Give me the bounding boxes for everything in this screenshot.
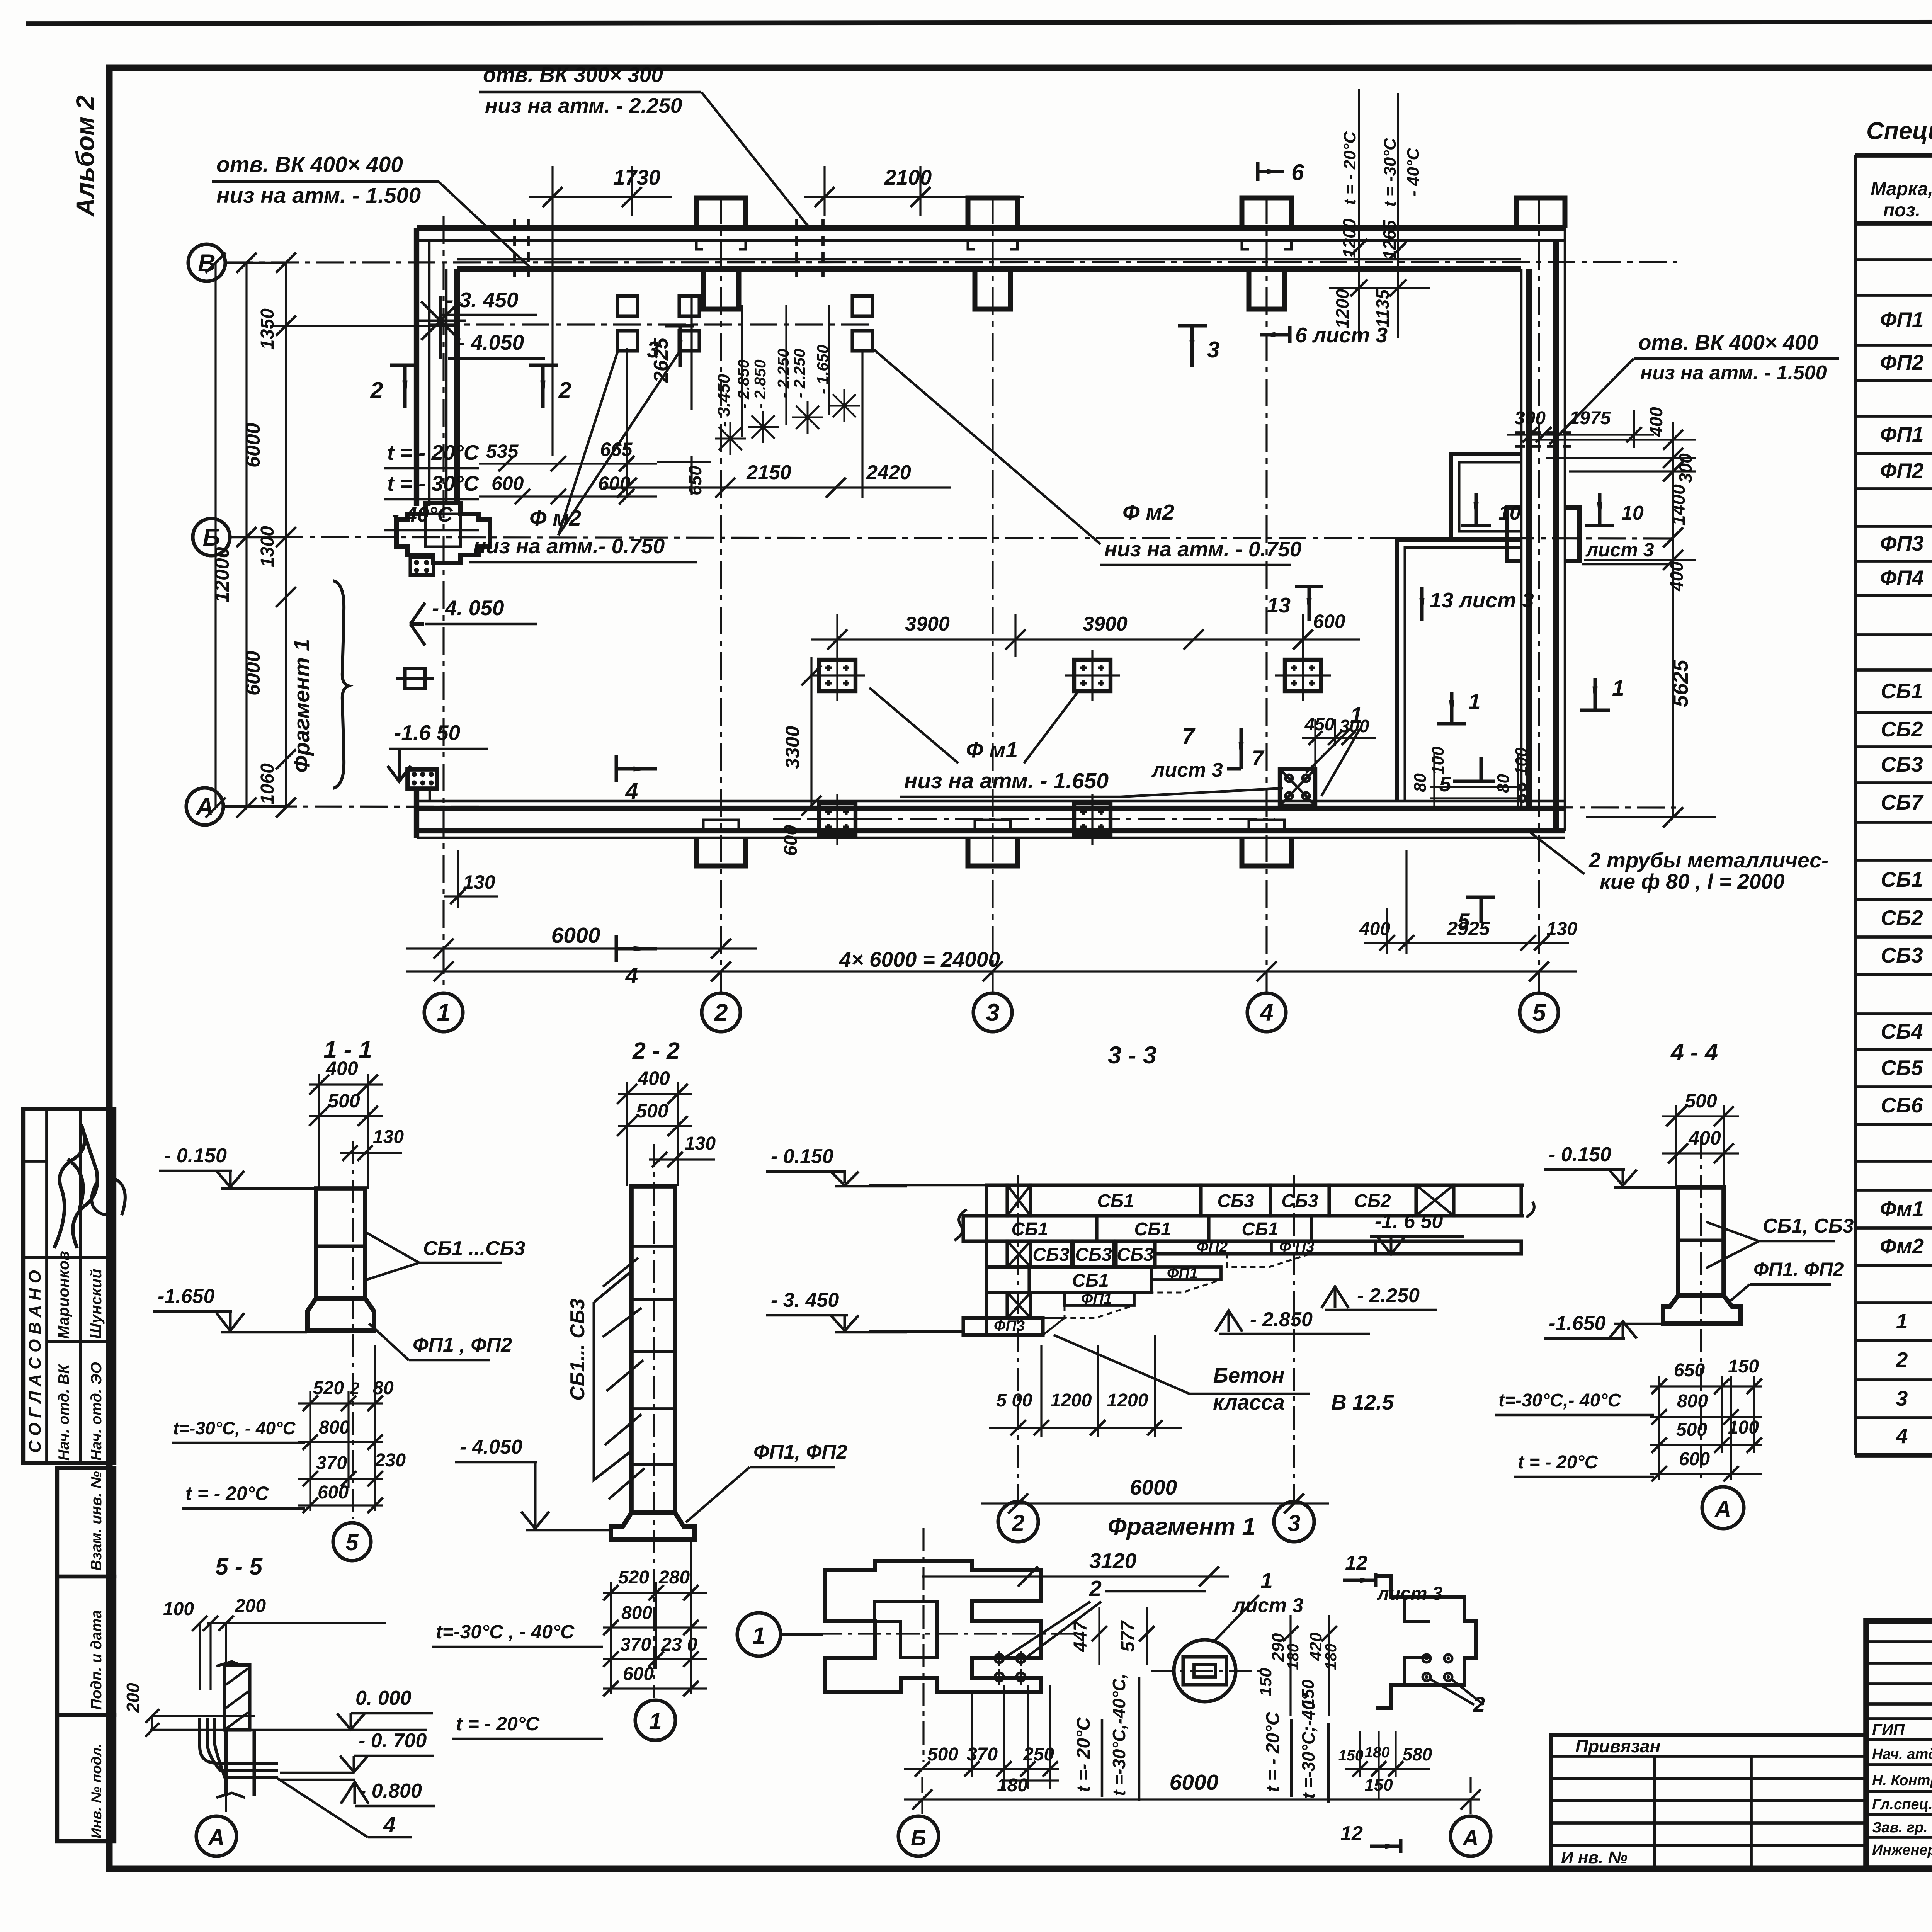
section marks 5 xyxy=(1453,757,1495,781)
svg-text:Шунский: Шунский xyxy=(87,1269,105,1339)
svg-text:665: 665 xyxy=(600,439,633,460)
svg-text:кие ф 80 , l = 2000: кие ф 80 , l = 2000 xyxy=(1600,869,1785,893)
svg-text:1: 1 xyxy=(1612,676,1624,701)
section mark 3 right xyxy=(1178,326,1207,367)
fragment 1 cross wall detail xyxy=(825,1561,1041,1692)
fragment 1 dim 3120 xyxy=(922,1575,1229,1577)
svg-text:400: 400 xyxy=(1359,919,1390,939)
svg-text:t =-30°C;-40°: t =-30°C;-40° xyxy=(1298,1693,1318,1799)
svg-text:6000: 6000 xyxy=(1130,1475,1177,1499)
svg-text:400: 400 xyxy=(1646,407,1666,437)
svg-text:А: А xyxy=(207,1825,225,1850)
svg-text:3 - 3: 3 - 3 xyxy=(1108,1042,1156,1069)
interior dash axis through Fm2 squares xyxy=(430,323,873,325)
svg-text:6 лист 3: 6 лист 3 xyxy=(1295,323,1388,347)
pier bolts square at axis 4 xyxy=(1280,769,1315,806)
axis line V horizontal xyxy=(225,262,1677,262)
svg-text:500: 500 xyxy=(636,1100,668,1122)
svg-text:СБ1: СБ1 xyxy=(1134,1219,1171,1240)
svg-text:А: А xyxy=(1462,1826,1478,1850)
svg-text:Н. Контр.: Н. Контр. xyxy=(1872,1772,1932,1789)
section 2-2 dim 130 xyxy=(649,1158,715,1160)
section 1-1 flare footing xyxy=(307,1298,374,1331)
svg-text:3120: 3120 xyxy=(1089,1549,1137,1573)
svg-text:80: 80 xyxy=(1411,773,1430,792)
svg-text:600: 600 xyxy=(1313,611,1345,632)
svg-text:СБ6: СБ6 xyxy=(1881,1093,1923,1117)
svg-text:Бетон: Бетон xyxy=(1213,1363,1285,1387)
svg-text:-1.650: -1.650 xyxy=(1549,1312,1606,1335)
Fm1 dims 3900 3900 600 xyxy=(811,638,1360,640)
top wall pier at axis x=1866 xyxy=(696,198,746,228)
svg-text:12: 12 xyxy=(1340,1822,1363,1845)
specification table grid xyxy=(1854,155,1857,1455)
svg-text:СБ1: СБ1 xyxy=(1881,679,1923,703)
small isolated pier on axis 1 xyxy=(405,668,425,689)
svg-text:650: 650 xyxy=(1674,1360,1705,1381)
section 4-4 dim 400 xyxy=(1662,1152,1739,1154)
opening VK300x300 dashes xyxy=(795,219,798,277)
svg-text:2: 2 xyxy=(370,378,383,403)
svg-text:Фрагмент 1: Фрагмент 1 xyxy=(1107,1513,1255,1540)
svg-text:низ на атм. - 0.750: низ на атм. - 0.750 xyxy=(1104,537,1302,561)
section 4-4 dims below xyxy=(1650,1385,1762,1387)
Fm2 dims 2150 2420 xyxy=(603,486,951,488)
section 5-5 dims 100 200 xyxy=(207,1622,386,1624)
svg-text:лист 3: лист 3 xyxy=(1585,539,1654,561)
fragment 1 right bolts xyxy=(1423,1655,1430,1662)
svg-text:7: 7 xyxy=(1252,746,1265,770)
svg-text:23 0: 23 0 xyxy=(661,1634,697,1655)
section mark 2 right xyxy=(529,365,558,408)
section 2-2 flare footing xyxy=(611,1513,695,1539)
svg-text:520: 520 xyxy=(313,1378,344,1398)
svg-text:t = - 20°C: t = - 20°C xyxy=(456,1713,540,1735)
svg-text:СБ5: СБ5 xyxy=(1881,1056,1923,1080)
svg-text:t =- 20°C: t =- 20°C xyxy=(1073,1717,1094,1792)
svg-text:ФП1. ФП2: ФП1. ФП2 xyxy=(1753,1259,1844,1280)
bottom dim 130 xyxy=(444,895,498,897)
plan left wall xyxy=(414,228,419,506)
plan right wall xyxy=(1520,269,1523,808)
Fm1 monolith squares lower row xyxy=(819,803,855,835)
svg-text:3300: 3300 xyxy=(782,726,803,769)
svg-text:2100: 2100 xyxy=(884,165,932,189)
section 3-3 level -2.850 xyxy=(1215,1311,1242,1332)
svg-text:низ на атм. - 1.500: низ на атм. - 1.500 xyxy=(1640,362,1827,384)
svg-text:СБ3: СБ3 xyxy=(1881,943,1923,967)
metal pipes pair in wall xyxy=(1519,784,1526,790)
section 2-2 block hatch diagonals xyxy=(603,1258,638,1287)
svg-text:6000: 6000 xyxy=(1170,1770,1219,1795)
svg-text:-1.6 50: -1.6 50 xyxy=(394,721,461,745)
section 1-1 centerline xyxy=(352,1141,354,1519)
svg-text:1200: 1200 xyxy=(1051,1390,1092,1411)
svg-text:3: 3 xyxy=(1896,1386,1908,1410)
section 3-3 level -3.450 left line xyxy=(869,1330,964,1333)
svg-text:ФП1: ФП1 xyxy=(1880,422,1923,446)
svg-text:4: 4 xyxy=(625,963,638,988)
svg-text:7: 7 xyxy=(1182,723,1196,749)
svg-text:СБ3: СБ3 xyxy=(1281,1191,1318,1211)
svg-text:500: 500 xyxy=(1685,1090,1717,1112)
plan bottom wall lines xyxy=(417,800,1565,803)
bottom wall piers at axes 2,3,4 xyxy=(696,838,746,866)
opening VK400x400 dashes in right wall xyxy=(1515,431,1571,434)
top wall pier at axis x=3278 xyxy=(1242,198,1291,228)
svg-text:3: 3 xyxy=(647,337,660,362)
svg-text:180: 180 xyxy=(997,1775,1028,1796)
svg-text:низ на атм. - 1.650: низ на атм. - 1.650 xyxy=(904,769,1109,793)
svg-text:600: 600 xyxy=(318,1482,349,1503)
svg-text:600: 600 xyxy=(598,473,631,494)
svg-text:2420: 2420 xyxy=(866,461,911,484)
svg-text:2: 2 xyxy=(1089,1576,1102,1601)
svg-text:180: 180 xyxy=(1284,1643,1302,1670)
right top dims 300 1975 xyxy=(1507,434,1654,435)
bottom overall dim 24000 xyxy=(406,970,1577,972)
svg-text:2 - 2: 2 - 2 xyxy=(632,1037,680,1064)
svg-text:ФП2: ФП2 xyxy=(1880,459,1924,483)
svg-text:- 4. 050: - 4. 050 xyxy=(432,596,504,620)
axis line 2 vertical xyxy=(720,196,722,993)
fragment 1 detail circle 1 list 3 xyxy=(1174,1640,1236,1702)
axis line B horizontal xyxy=(230,537,1677,539)
svg-text:И нв. №: И нв. № xyxy=(1561,1848,1628,1867)
section 3-3 row continuation lines xyxy=(1454,1183,1524,1187)
Fm1 dim 3300 rotated xyxy=(810,657,812,808)
bottom dim 6000 axis1-2 xyxy=(406,947,757,949)
svg-text:800: 800 xyxy=(319,1417,350,1438)
section 5-5 wall hatched xyxy=(224,1665,250,1730)
svg-text:лист 3: лист 3 xyxy=(1151,759,1223,781)
svg-text:1: 1 xyxy=(1896,1309,1908,1333)
svg-text:Фм1: Фм1 xyxy=(1880,1197,1924,1221)
section 1-1 dim 130 xyxy=(340,1152,402,1154)
svg-text:отв. ВК 400× 400: отв. ВК 400× 400 xyxy=(216,152,403,177)
axis line 3 vertical xyxy=(992,196,993,993)
svg-text:1730: 1730 xyxy=(613,165,661,189)
svg-text:2: 2 xyxy=(1012,1510,1025,1536)
svg-text:t = - 20°C: t = - 20°C xyxy=(1263,1711,1283,1792)
svg-text:отв. ВК 400× 400: отв. ВК 400× 400 xyxy=(1638,330,1818,354)
section 4-4 flare footing xyxy=(1663,1296,1741,1324)
svg-text:Подп. и дата: Подп. и дата xyxy=(88,1610,105,1710)
svg-text:Марка,: Марка, xyxy=(1871,179,1932,199)
room 13 walls xyxy=(1397,539,1521,801)
top scan edge line xyxy=(26,21,1932,24)
svg-text:ГИП: ГИП xyxy=(1872,1721,1905,1738)
axis circle В xyxy=(188,244,225,281)
svg-text:2 трубы металличес-: 2 трубы металличес- xyxy=(1588,848,1828,872)
svg-text:Нач. отд. ВК: Нач. отд. ВК xyxy=(56,1363,72,1461)
svg-text:- 3.450: - 3.450 xyxy=(714,374,733,427)
axis line 5 vertical xyxy=(1538,196,1540,993)
fragment 1 axis circles B A xyxy=(921,1777,923,1816)
svg-text:130: 130 xyxy=(1546,919,1577,939)
axis line 4 vertical xyxy=(1265,196,1267,993)
svg-text:4: 4 xyxy=(383,1813,396,1837)
svg-text:- 40°C: - 40°C xyxy=(392,502,453,526)
svg-text:СБ1: СБ1 xyxy=(1242,1219,1278,1240)
svg-text:6000: 6000 xyxy=(242,651,264,696)
left dims horizontal extension at 843 xyxy=(270,325,456,327)
section 3-3 slab strip right xyxy=(1155,1241,1521,1254)
svg-text:1060: 1060 xyxy=(257,763,278,804)
svg-text:лист 3: лист 3 xyxy=(1377,1583,1443,1604)
svg-text:500: 500 xyxy=(1676,1420,1707,1440)
svg-text:ФП3: ФП3 xyxy=(994,1318,1025,1334)
approval stamp block xyxy=(23,1109,114,1463)
svg-text:6000: 6000 xyxy=(242,423,264,468)
top wall corner pier at axis 5 xyxy=(1517,198,1565,228)
svg-text:Гл.спец.: Гл.спец. xyxy=(1872,1796,1932,1813)
svg-text:- 2.850: - 2.850 xyxy=(735,359,752,409)
svg-text:СБ2: СБ2 xyxy=(1881,906,1923,930)
svg-text:3: 3 xyxy=(986,999,999,1026)
svg-text:низ на атм.- 0.750: низ на атм.- 0.750 xyxy=(473,534,665,558)
room 10 walls xyxy=(1451,454,1521,539)
svg-text:577: 577 xyxy=(1118,1620,1138,1652)
Fm1 monolith squares upper row xyxy=(819,660,855,691)
svg-text:2: 2 xyxy=(350,1379,360,1398)
left dim chain lines xyxy=(214,263,216,808)
svg-text:1200: 1200 xyxy=(1332,289,1352,328)
svg-text:10: 10 xyxy=(1498,502,1521,524)
svg-text:А: А xyxy=(1714,1497,1731,1522)
svg-text:- 0. 700: - 0. 700 xyxy=(359,1730,427,1752)
svg-text:СБ1, СБ3: СБ1, СБ3 xyxy=(1763,1215,1854,1237)
svg-text:3: 3 xyxy=(1288,1510,1301,1536)
title block left rows xyxy=(1866,1640,1932,1643)
svg-text:Фм2: Фм2 xyxy=(1880,1234,1924,1258)
svg-text:13 лист 3: 13 лист 3 xyxy=(1430,588,1534,612)
svg-text:370: 370 xyxy=(620,1634,651,1655)
svg-text:400: 400 xyxy=(1688,1127,1721,1149)
Fm2 dim 650 xyxy=(690,456,692,495)
section 3-3 hatch wedges xyxy=(1227,1254,1310,1267)
svg-text:СБ4: СБ4 xyxy=(1881,1019,1923,1043)
svg-text:СБ1: СБ1 xyxy=(1881,867,1923,891)
section 4-4 dim 500 xyxy=(1662,1115,1739,1117)
left cross pier at axis B xyxy=(396,503,490,563)
svg-text:СБ3: СБ3 xyxy=(1217,1191,1254,1211)
svg-text:ФП1 , ФП2: ФП1 , ФП2 xyxy=(413,1334,512,1356)
svg-text:ФП1, ФП2: ФП1, ФП2 xyxy=(753,1441,847,1463)
right dim chain 400 300 1400 400 5625 xyxy=(1672,422,1674,817)
svg-text:100: 100 xyxy=(163,1599,194,1619)
svg-text:Альбом 2: Альбом 2 xyxy=(71,95,99,217)
section 2-2 dims below xyxy=(603,1592,707,1594)
svg-text:СБ3: СБ3 xyxy=(1881,752,1923,776)
svg-text:СБ2: СБ2 xyxy=(1881,717,1923,741)
svg-text:180: 180 xyxy=(1322,1643,1340,1670)
svg-text:СБ7: СБ7 xyxy=(1881,790,1924,814)
svg-text:3: 3 xyxy=(1207,337,1220,362)
svg-text:С О Г Л А С О В А Н О: С О Г Л А С О В А Н О xyxy=(26,1270,44,1453)
svg-text:ФП2: ФП2 xyxy=(1880,350,1924,374)
svg-text:130: 130 xyxy=(463,871,495,893)
svg-text:ФП4: ФП4 xyxy=(1880,566,1923,590)
svg-text:1200: 1200 xyxy=(1339,218,1359,258)
svg-text:370: 370 xyxy=(316,1453,347,1473)
svg-text:580: 580 xyxy=(1403,1744,1432,1764)
svg-text:5: 5 xyxy=(1458,909,1470,933)
svg-text:800: 800 xyxy=(1677,1391,1708,1412)
svg-text:Ф м1: Ф м1 xyxy=(966,738,1018,762)
svg-text:230: 230 xyxy=(374,1450,406,1471)
svg-text:Б: Б xyxy=(911,1826,926,1850)
svg-text:t = -30°C: t = -30°C xyxy=(1381,138,1400,207)
svg-text:СБ1... СБ3: СБ1... СБ3 xyxy=(566,1299,589,1401)
svg-text:Ф м2: Ф м2 xyxy=(1122,500,1175,525)
svg-text:1: 1 xyxy=(1468,689,1481,714)
svg-text:низ на атм. - 1.500: низ на атм. - 1.500 xyxy=(216,183,421,208)
fragment 1 dim 6000 xyxy=(904,1798,1480,1800)
svg-text:10: 10 xyxy=(1621,502,1644,524)
svg-text:200: 200 xyxy=(123,1683,143,1713)
stamp box podp i data xyxy=(57,1577,114,1715)
svg-text:t=-30°C , - 40°C: t=-30°C , - 40°C xyxy=(436,1621,575,1643)
svg-text:Нач. отд. ЭО: Нач. отд. ЭО xyxy=(88,1362,105,1461)
svg-text:- 2.250: - 2.250 xyxy=(774,349,792,398)
section 3-3 level -2.250 xyxy=(1321,1287,1349,1308)
svg-text:ФП2: ФП2 xyxy=(1197,1239,1228,1255)
section 1-1 dims below xyxy=(298,1402,383,1404)
svg-text:5: 5 xyxy=(1532,999,1546,1026)
svg-text:поз.: поз. xyxy=(1883,200,1920,221)
svg-text:1265: 1265 xyxy=(1379,219,1400,260)
svg-text:- 0.150: - 0.150 xyxy=(164,1145,227,1167)
svg-text:t = - 20°C: t = - 20°C xyxy=(1340,131,1359,205)
svg-text:4: 4 xyxy=(625,779,638,804)
approval signatures scribble xyxy=(54,1124,97,1248)
svg-text:Привязан: Привязан xyxy=(1575,1736,1660,1756)
svg-text:5 00: 5 00 xyxy=(996,1390,1032,1411)
top dim 1730 xyxy=(529,196,672,198)
svg-text:150: 150 xyxy=(1728,1356,1759,1377)
svg-text:1: 1 xyxy=(1260,1568,1273,1593)
svg-text:600: 600 xyxy=(1679,1449,1710,1469)
svg-text:500: 500 xyxy=(328,1090,360,1112)
section 3-3 axis circles 2 3 xyxy=(998,1502,1038,1542)
svg-text:ФП1: ФП1 xyxy=(1880,308,1923,332)
section 3-3 block rows xyxy=(986,1185,1007,1216)
svg-text:2: 2 xyxy=(1896,1348,1908,1372)
svg-text:- 2.850: - 2.850 xyxy=(751,359,769,409)
section mark 6 top xyxy=(1258,162,1284,181)
svg-text:Ф м2: Ф м2 xyxy=(529,506,582,531)
stamp box vzam inv xyxy=(57,1468,114,1577)
axis line A horizontal xyxy=(223,806,1677,808)
svg-text:3900: 3900 xyxy=(905,613,950,635)
svg-text:1300: 1300 xyxy=(257,526,278,567)
svg-text:600: 600 xyxy=(492,473,524,494)
section 3-3 left break edge xyxy=(985,1185,988,1335)
axis circle 4 bottom xyxy=(1247,993,1286,1032)
svg-text:600: 600 xyxy=(623,1664,654,1684)
main title block frame xyxy=(1866,1621,1932,1868)
section 2-2 axis circle 1 xyxy=(635,1700,675,1740)
section 4-4 axis circle A xyxy=(1702,1487,1744,1529)
section mark 6 list 3 xyxy=(1260,326,1290,343)
svg-text:- 0.150: - 0.150 xyxy=(771,1145,833,1168)
axis circle 5 bottom xyxy=(1520,993,1558,1032)
svg-text:СБ2: СБ2 xyxy=(1354,1191,1391,1211)
svg-text:2: 2 xyxy=(558,378,571,403)
section 2-2 dim 500 xyxy=(618,1125,692,1127)
svg-text:130: 130 xyxy=(685,1133,716,1154)
leader to opening xyxy=(439,182,529,267)
plan top wall inner lines xyxy=(457,258,1521,261)
svg-text:СБ3: СБ3 xyxy=(1032,1245,1070,1265)
section marks 10 xyxy=(1461,493,1491,526)
fragment 1 axis circle 1 xyxy=(737,1613,781,1656)
svg-text:1350: 1350 xyxy=(257,308,278,350)
svg-text:Взам. инв. №: Взам. инв. № xyxy=(88,1471,105,1571)
stamp box inv n podl xyxy=(57,1715,114,1841)
svg-text:Марионков: Марионков xyxy=(54,1251,72,1339)
svg-text:5625: 5625 xyxy=(1668,659,1692,707)
svg-text:800: 800 xyxy=(621,1603,652,1623)
svg-text:СБ1: СБ1 xyxy=(1011,1219,1048,1240)
section 5-5 lower wall xyxy=(224,1730,228,1796)
svg-text:100: 100 xyxy=(1429,746,1447,775)
svg-text:12: 12 xyxy=(1345,1552,1367,1574)
axis circle 2 bottom xyxy=(702,993,740,1032)
svg-text:400: 400 xyxy=(325,1058,358,1079)
svg-text:- 0.150: - 0.150 xyxy=(1549,1143,1611,1166)
fragment 1 dims 150 180 580 xyxy=(1345,1768,1430,1770)
section mark 2 left xyxy=(390,365,419,408)
section 2-2 column of blocks xyxy=(631,1186,675,1513)
svg-text:4: 4 xyxy=(1896,1424,1908,1448)
right cross pier at axis B xyxy=(1507,508,1580,561)
svg-text:-1. 6 50: -1. 6 50 xyxy=(1375,1210,1443,1233)
svg-text:- 2.250: - 2.250 xyxy=(1357,1284,1420,1307)
svg-text:- 4.050: - 4.050 xyxy=(460,1436,522,1458)
svg-text:13: 13 xyxy=(1267,593,1291,617)
section 2-2 dim 400 xyxy=(618,1093,692,1095)
svg-text:6000: 6000 xyxy=(551,923,600,948)
section 4-4 centerline xyxy=(1700,1136,1702,1484)
svg-text:низ на атм. - 2.250: низ на атм. - 2.250 xyxy=(485,94,682,117)
plan top wall outer lines xyxy=(417,225,1565,231)
leader to right wall opening xyxy=(1549,359,1634,444)
svg-text:- 3. 450: - 3. 450 xyxy=(446,288,519,312)
svg-text:t = - 20°C: t = - 20°C xyxy=(185,1483,269,1504)
axis line 1 vertical xyxy=(442,216,444,993)
section mark 3 left xyxy=(665,326,694,367)
svg-text:t=-30°C,- 40°C: t=-30°C,- 40°C xyxy=(1498,1390,1621,1411)
svg-text:1: 1 xyxy=(752,1622,765,1649)
svg-text:-1.650: -1.650 xyxy=(158,1285,215,1308)
leader to opening xyxy=(701,92,810,228)
svg-text:180: 180 xyxy=(1364,1744,1389,1761)
svg-text:В 12.5: В 12.5 xyxy=(1331,1390,1394,1414)
svg-text:400: 400 xyxy=(1667,561,1687,592)
section marks 13 xyxy=(1295,587,1323,621)
svg-text:80: 80 xyxy=(1494,774,1513,793)
svg-text:400: 400 xyxy=(637,1068,670,1089)
section marks 4 xyxy=(616,755,657,782)
svg-text:отв. ВК 300× 300: отв. ВК 300× 300 xyxy=(483,63,663,87)
svg-text:- 4.050: - 4.050 xyxy=(458,330,524,354)
svg-text:450: 450 xyxy=(1304,714,1335,734)
svg-text:Инв. № подл.: Инв. № подл. xyxy=(88,1743,104,1838)
svg-text:t=-30°C, - 40°C: t=-30°C, - 40°C xyxy=(173,1418,296,1438)
section 3-3 axis lines xyxy=(1017,1175,1019,1503)
